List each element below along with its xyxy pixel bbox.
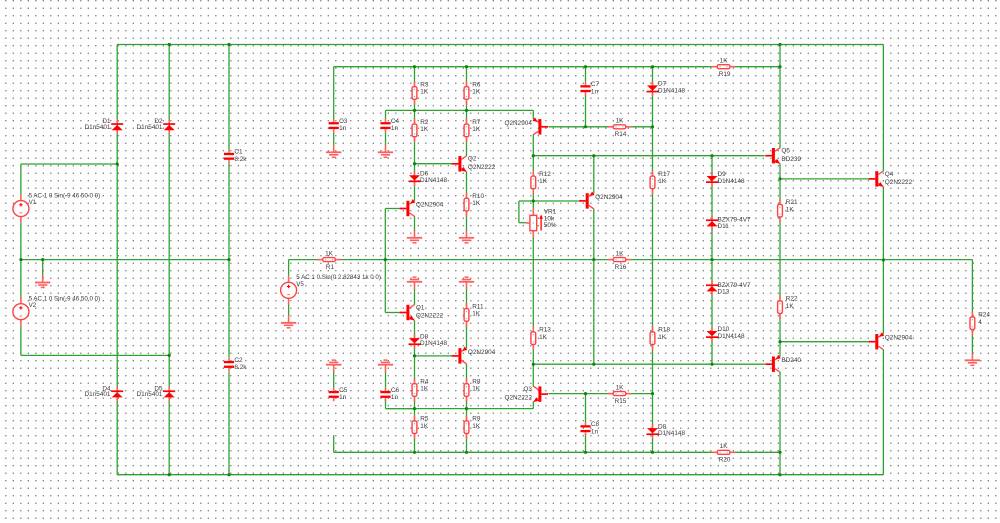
svg-text:5 AC 1 0 Sin(-9 46 50 0 0): 5 AC 1 0 Sin(-9 46 50 0 0) <box>29 296 101 303</box>
wire R9 column <box>466 409 468 453</box>
resistor R10 <box>464 193 484 216</box>
ground-up Q1 <box>407 277 422 289</box>
junction mid rail input <box>384 258 387 261</box>
transistor BD240 <box>765 355 801 372</box>
svg-text:R9: R9 <box>472 416 481 423</box>
svg-text:R24: R24 <box>978 312 990 319</box>
capacitor C5 <box>329 387 348 401</box>
wire R3 column <box>414 67 416 111</box>
svg-text:R18: R18 <box>658 327 670 334</box>
wire R11 column <box>466 289 468 348</box>
zener D13 <box>706 281 751 296</box>
junction lower emitter rail a <box>413 407 416 410</box>
junction upper emitter rail b <box>465 109 468 112</box>
wire mid PNP base wire <box>533 200 579 202</box>
junction H7 D5 <box>168 473 171 476</box>
svg-text:1K: 1K <box>720 443 729 450</box>
wire R2 column <box>414 110 416 163</box>
wire D1 column <box>116 45 118 475</box>
wire lower inner rail <box>334 451 780 453</box>
svg-text:C1: C1 <box>234 149 243 156</box>
capacitor C8 <box>580 421 599 435</box>
junction lower emitter rail b <box>465 407 468 410</box>
svg-text:R10: R10 <box>472 193 484 200</box>
wire drive rail lower <box>548 393 652 395</box>
wire Q2 base wire <box>415 163 453 165</box>
junction mid rail V1V2 <box>19 258 22 261</box>
svg-text:C3: C3 <box>339 118 348 125</box>
diode D1 <box>85 118 124 134</box>
wire D13 D10 column <box>711 260 713 365</box>
svg-text:Q3: Q3 <box>523 386 532 393</box>
wire Q2 emitter R10 column <box>466 172 468 231</box>
wire C1 column upper <box>228 45 230 150</box>
svg-text:R15: R15 <box>615 398 627 405</box>
wire upper PNP emitter drop <box>532 110 534 119</box>
ground-up C6 <box>378 360 393 372</box>
svg-text:R17: R17 <box>658 171 670 178</box>
wire C8 bottom link <box>585 436 587 453</box>
svg-text:Q1: Q1 <box>416 304 425 311</box>
wire V2 to bottom jog <box>20 326 22 356</box>
wire VR1 wiper jog down <box>518 201 520 223</box>
wire C1-C2 column middle <box>228 163 230 357</box>
diode D7 <box>647 81 686 96</box>
svg-text:Q2N2222: Q2N2222 <box>505 394 533 401</box>
wire C3 to ground <box>333 132 335 145</box>
svg-text:R8: R8 <box>472 378 481 385</box>
junction H7 C2 <box>227 473 230 476</box>
resistor R6 <box>464 81 481 104</box>
wire VR1 R13 column <box>532 238 534 365</box>
zener D11 <box>706 216 751 230</box>
wire PNP collector to ground <box>414 216 416 231</box>
transistor mid-left PNP <box>400 199 444 216</box>
ground PNP collector <box>407 231 422 243</box>
svg-text:BD240: BD240 <box>781 357 801 364</box>
diode D9 <box>706 171 745 186</box>
wire rail R19 to Q5 <box>779 45 781 67</box>
transistor output PNP <box>869 332 913 349</box>
transistor Q3 <box>505 386 548 402</box>
ground C3 <box>326 145 341 157</box>
svg-text:Q5: Q5 <box>781 148 790 155</box>
junction H6p R5 <box>413 451 416 454</box>
wire C5 to lower rail <box>333 435 335 452</box>
svg-text:4: 4 <box>978 319 982 326</box>
wire bias rail <box>533 155 764 157</box>
svg-text:1K: 1K <box>325 251 334 258</box>
svg-text:Q2N2904: Q2N2904 <box>595 194 623 201</box>
wire R8 column <box>466 364 468 409</box>
resistor R16 <box>608 251 631 271</box>
svg-text:Q2N2222: Q2N2222 <box>885 179 913 186</box>
svg-text:C5: C5 <box>339 387 348 394</box>
svg-text:1K: 1K <box>472 200 481 207</box>
svg-text:D1N4148: D1N4148 <box>420 177 447 184</box>
junction lower PNP base <box>413 354 416 357</box>
capacitor C4 <box>380 118 399 132</box>
capacitor C2 <box>224 357 247 371</box>
junction mid rail Q4 <box>882 258 885 261</box>
svg-text:V5: V5 <box>296 281 304 288</box>
wire Q4 emitter column <box>882 187 884 334</box>
ground R24 <box>965 353 980 365</box>
source V1 <box>13 192 100 222</box>
wire VR1 top link <box>532 201 534 208</box>
svg-text:D13: D13 <box>718 288 730 295</box>
svg-text:1n: 1n <box>591 88 599 95</box>
junction H2 R6 <box>465 65 468 68</box>
wire R6 column <box>466 67 468 111</box>
wire output PNP base wire <box>780 341 869 343</box>
wire D7 column <box>652 67 654 127</box>
wire D2 column <box>168 45 170 475</box>
junction H3 end <box>651 125 654 128</box>
svg-text:R20: R20 <box>719 457 731 464</box>
svg-text:1n: 1n <box>339 394 347 401</box>
ground-up C5 <box>326 360 341 372</box>
wire C4 top jog <box>385 110 387 119</box>
resistor R2 <box>412 119 429 142</box>
svg-text:1K: 1K <box>472 311 481 318</box>
wire BD240 collector column <box>779 372 781 475</box>
svg-text:1K: 1K <box>786 303 795 310</box>
resistor R19 <box>712 58 735 78</box>
svg-text:C2: C2 <box>234 357 243 364</box>
svg-text:8.2k: 8.2k <box>234 364 247 371</box>
potentiometer VR1 <box>526 208 557 238</box>
wire rail +supply inner <box>334 66 780 68</box>
svg-text:1K: 1K <box>472 126 481 133</box>
wire R5 column <box>414 409 416 453</box>
svg-text:1K: 1K <box>420 423 429 430</box>
svg-text:R14: R14 <box>615 131 627 138</box>
wire V1 to mid rail <box>20 223 22 260</box>
svg-text:R12: R12 <box>539 171 551 178</box>
capacitor C7 <box>580 81 599 95</box>
junction H6p D8 <box>651 451 654 454</box>
wire Q1 collector to ground <box>414 289 416 305</box>
svg-text:D1N4148: D1N4148 <box>718 178 745 185</box>
svg-text:R3: R3 <box>420 81 429 88</box>
resistor R14 <box>608 118 631 138</box>
resistor R4 <box>412 378 429 401</box>
svg-text:8.2k: 8.2k <box>234 156 247 163</box>
svg-text:C7: C7 <box>591 81 600 88</box>
diode D2 <box>137 118 176 134</box>
wire C6 drop <box>385 371 387 387</box>
svg-text:VR1: VR1 <box>544 209 557 216</box>
svg-text:50%: 50% <box>544 222 557 229</box>
svg-text:R13: R13 <box>539 327 551 334</box>
wire output PNP collector column <box>882 350 884 475</box>
junction Q2 base <box>413 162 416 165</box>
wire PNP base jog <box>385 208 401 210</box>
svg-text:D1N4148: D1N4148 <box>718 333 745 340</box>
diode D6 <box>409 170 448 185</box>
transistor Q1 <box>400 304 444 320</box>
svg-text:1K: 1K <box>616 385 625 392</box>
transistor upper PNP <box>505 117 548 134</box>
svg-text:C4: C4 <box>391 118 400 125</box>
wire mid rail right <box>289 259 973 261</box>
svg-text:Q2N2904: Q2N2904 <box>885 335 913 342</box>
svg-text:5 AC 1 0 Sin(-9 46 50 0 0): 5 AC 1 0 Sin(-9 46 50 0 0) <box>29 192 101 199</box>
wire C4 to ground <box>385 132 387 145</box>
svg-text:D1n5401: D1n5401 <box>137 391 163 398</box>
wire lower bias rail <box>533 363 765 365</box>
junction H4 D9 <box>710 154 713 157</box>
svg-text:D1n5401: D1n5401 <box>85 124 111 131</box>
svg-text:5 AC 1 0 Sin(0 2.82843 1k 0 0): 5 AC 1 0 Sin(0 2.82843 1k 0 0) <box>296 274 381 281</box>
resistor R9 <box>464 416 481 439</box>
diode D4 <box>85 385 124 401</box>
wire BD240 emitter link <box>779 342 781 357</box>
ground-up R11 <box>459 277 474 289</box>
svg-text:1K: 1K <box>616 118 625 125</box>
junction H2 D7 <box>651 65 654 68</box>
resistor R1 <box>317 251 340 271</box>
capacitor C6 <box>380 387 399 401</box>
svg-text:1K: 1K <box>786 206 795 213</box>
junction H1 R19 col <box>778 43 781 46</box>
ground C4 <box>378 145 393 157</box>
resistor R21 <box>778 199 798 222</box>
junction H3 C7 <box>584 125 587 128</box>
wire bottom rail <box>117 474 883 476</box>
diode D8 lower <box>647 423 686 438</box>
svg-text:D1N4148: D1N4148 <box>658 430 685 437</box>
junction H6p end <box>778 451 781 454</box>
resistor R12 <box>531 171 551 194</box>
wire V5 column <box>288 260 290 277</box>
svg-text:1K: 1K <box>658 334 667 341</box>
svg-text:Q2N2904: Q2N2904 <box>468 349 496 356</box>
junction mid rail collector <box>592 258 595 261</box>
resistor R8 <box>464 378 481 401</box>
svg-text:1n: 1n <box>591 428 599 435</box>
wire top rail <box>117 44 883 46</box>
junction VR1 wiper <box>532 199 535 202</box>
wire emitter rail lower <box>386 408 534 410</box>
wire mid PNP collector column <box>593 209 595 365</box>
resistor R20 <box>712 443 735 463</box>
junction H2 R3 <box>413 65 416 68</box>
svg-text:1K: 1K <box>616 251 625 258</box>
diode D8 <box>409 333 448 348</box>
resistor R24 <box>970 312 990 335</box>
resistor R22 <box>778 296 798 319</box>
wire Q5 emitter R21 R22 column <box>779 164 781 342</box>
svg-text:R11: R11 <box>472 303 484 310</box>
junction H2 C7 <box>584 65 587 68</box>
transistor lower PNP <box>452 347 496 364</box>
svg-text:Q2N2222: Q2N2222 <box>416 313 444 320</box>
svg-text:V1: V1 <box>29 199 37 206</box>
svg-text:V2: V2 <box>29 302 37 309</box>
wire Q1 base jog <box>385 312 400 314</box>
junction H8 C8 <box>584 392 587 395</box>
svg-text:BD239: BD239 <box>781 156 801 163</box>
svg-text:1K: 1K <box>658 178 667 185</box>
svg-text:R21: R21 <box>786 199 798 206</box>
wire Q4 base wire <box>780 178 869 180</box>
svg-text:R6: R6 <box>472 81 481 88</box>
wire R17 R18 column <box>652 127 654 394</box>
wire V5 to ground <box>288 305 290 316</box>
wire C7 top link <box>585 67 587 82</box>
wire D8 lower column <box>652 394 654 453</box>
transistor Q2 <box>452 156 496 172</box>
svg-text:1K: 1K <box>472 423 481 430</box>
diode D5 <box>137 385 176 401</box>
svg-text:1K: 1K <box>472 89 481 96</box>
svg-text:1K: 1K <box>472 386 481 393</box>
resistor R15 <box>608 385 631 405</box>
svg-text:1n: 1n <box>339 125 347 132</box>
source V5 <box>281 274 381 304</box>
svg-text:1K: 1K <box>420 89 429 96</box>
svg-text:Q4: Q4 <box>885 171 894 178</box>
svg-text:R7: R7 <box>472 119 481 126</box>
junction R22 out <box>778 340 781 343</box>
junction H2 end <box>778 65 781 68</box>
wire D6 column <box>414 164 416 201</box>
wire mid PNP emitter link <box>593 156 595 194</box>
junction H4 emitter <box>592 154 595 157</box>
junction H1 D2 <box>168 43 171 46</box>
wire Q1 emitter D8 column <box>414 320 416 356</box>
wire R24 column <box>971 260 973 353</box>
svg-text:D11: D11 <box>718 223 730 230</box>
junction H6 collector <box>592 363 595 366</box>
wire VR1 wiper jog top <box>519 200 533 202</box>
transistor mid PNP <box>579 192 623 209</box>
wire C8 top link <box>585 394 587 422</box>
wire V2 bottom to D5 column <box>21 354 169 356</box>
wire mid rail left <box>21 259 229 261</box>
wire C5 drop <box>333 371 335 387</box>
junction mid rail gnd <box>41 258 44 261</box>
transistor Q4 <box>869 171 913 187</box>
wire emitter rail upper <box>386 109 534 111</box>
svg-text:1n: 1n <box>391 394 399 401</box>
wire V1 top to D1 column <box>21 163 117 165</box>
junction H8 end <box>651 392 654 395</box>
junction H7 BD240 <box>778 473 781 476</box>
source V2 <box>13 296 100 326</box>
resistor R18 <box>650 327 670 350</box>
svg-text:C8: C8 <box>591 421 600 428</box>
svg-text:Q2: Q2 <box>468 156 477 163</box>
capacitor C3 <box>329 118 348 132</box>
junction Q5 emitter <box>778 177 781 180</box>
svg-text:R22: R22 <box>786 296 798 303</box>
junction H6 R13 <box>532 363 535 366</box>
wire R4 column <box>414 356 416 409</box>
wire C2 column lower <box>228 372 230 475</box>
capacitor C1 <box>224 149 247 163</box>
svg-text:Q2N2904: Q2N2904 <box>505 120 533 127</box>
svg-text:R16: R16 <box>615 264 627 271</box>
wire D9 D11 column <box>711 156 713 260</box>
svg-text:1K: 1K <box>420 126 429 133</box>
resistor R3 <box>412 81 429 104</box>
wire Q3 collector link <box>532 364 534 386</box>
junction H6p C8 <box>584 451 587 454</box>
wire R7 column <box>466 110 468 156</box>
diode D10 <box>706 326 745 341</box>
resistor R13 <box>531 327 551 350</box>
svg-text:D1n5401: D1n5401 <box>85 391 111 398</box>
svg-text:1n: 1n <box>391 125 399 132</box>
svg-text:1K: 1K <box>420 386 429 393</box>
junction H6 D10 <box>710 363 713 366</box>
svg-text:1K: 1K <box>539 178 548 185</box>
wire lower PNP base wire <box>415 355 453 357</box>
junction V1 wire <box>116 162 119 165</box>
svg-text:R19: R19 <box>719 71 731 78</box>
wire Q3 emitter link <box>532 402 534 409</box>
svg-text:R4: R4 <box>420 378 429 385</box>
svg-text:1K: 1K <box>539 334 548 341</box>
wire mid rail to V2 <box>20 260 22 298</box>
junction H6p R9 <box>465 451 468 454</box>
ground R10 <box>459 231 474 243</box>
svg-text:D1n5401: D1n5401 <box>137 124 163 131</box>
resistor R7 <box>464 119 481 142</box>
svg-text:Q2N2222: Q2N2222 <box>468 164 496 171</box>
wire C6 bottom jog v <box>385 399 387 409</box>
wire Q5 collector column <box>779 67 781 148</box>
svg-text:R2: R2 <box>420 119 429 126</box>
wire V1 feed <box>20 164 22 194</box>
wire Q4 collector column <box>882 45 884 172</box>
junction upper emitter rail a <box>413 109 416 112</box>
wire C7 bottom link <box>585 96 587 127</box>
resistor R11 <box>464 303 484 326</box>
wire upper PNP collector R12 column <box>532 134 534 201</box>
transistor Q5 <box>765 148 801 164</box>
wire VR1 wiper lead <box>519 222 526 224</box>
wire C3 drop <box>333 67 335 119</box>
junction H1 C1 <box>227 43 230 46</box>
svg-text:Q2N2904: Q2N2904 <box>416 202 444 209</box>
junction mid rail C1C2 <box>227 258 230 261</box>
svg-text:C6: C6 <box>391 387 400 394</box>
ground V5 <box>281 316 296 328</box>
wire drive rail upper <box>548 126 652 128</box>
resistor R5 <box>412 416 429 439</box>
junction V2 wire <box>168 354 171 357</box>
resistor R17 <box>650 171 670 194</box>
junction H4 R12 <box>532 154 535 157</box>
ground mid rail <box>35 260 50 288</box>
svg-text:1K: 1K <box>720 58 729 65</box>
svg-text:R5: R5 <box>420 416 429 423</box>
svg-text:D1N4148: D1N4148 <box>658 87 685 94</box>
C6 bottom jog <box>386 408 415 410</box>
wire input node column <box>384 209 386 313</box>
svg-text:D1N4148: D1N4148 <box>420 340 447 347</box>
svg-text:R1: R1 <box>326 264 335 271</box>
junction mid rail D11 <box>710 258 713 261</box>
